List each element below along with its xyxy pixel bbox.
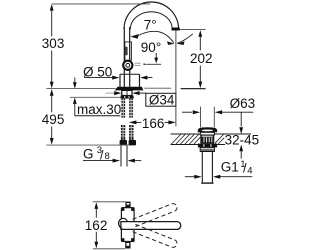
svg-text:7°: 7° — [144, 18, 157, 33]
32-45 arrow down — [239, 127, 243, 134]
riser tube right wall — [129, 27, 131, 87]
dimension 202 line lower — [199, 66, 201, 83]
mounting shank — [122, 90, 132, 95]
D50 dim line left — [84, 77, 113, 79]
D50 arrow right-pointing — [112, 76, 119, 80]
locknut facet marks — [203, 144, 204, 147]
top view body corner tabs — [122, 208, 125, 211]
deck bottom line (drain) — [171, 144, 226, 146]
handle pivot ring — [123, 61, 132, 70]
stud right thread marks — [129, 101, 133, 116]
D63 arrow right-pointing — [193, 110, 200, 114]
hose-end extension line — [46, 144, 129, 146]
G1 1/4 arrow left-pointing — [213, 175, 220, 179]
svg-text:166: 166 — [142, 116, 165, 131]
162 top extension line — [93, 201, 126, 203]
swivel dashed tube upper — [133, 204, 177, 227]
svg-text:G: G — [83, 147, 94, 162]
svg-text:90°: 90° — [141, 40, 161, 55]
162 bottom extension line — [93, 248, 125, 250]
threaded stud left — [121, 99, 125, 118]
max.30 underline — [75, 115, 121, 117]
lever handle dark grip — [125, 47, 128, 55]
D63 dim line left — [182, 111, 192, 113]
dimension 495 line lower — [51, 127, 53, 140]
spout inner arc — [130, 12, 172, 30]
90deg down arrow shaft — [155, 53, 157, 60]
svg-text:G1: G1 — [221, 160, 239, 175]
max.30 upper arrow shaft — [74, 78, 76, 84]
lever handle outline — [125, 42, 131, 60]
mounting nut — [121, 96, 134, 99]
D63 extension line right — [213, 107, 215, 128]
top view swivel hub — [119, 218, 128, 228]
162 arrow down — [94, 242, 98, 249]
swivel dashed tube lower — [133, 224, 177, 247]
D34 arrow right (points left at shank) — [132, 91, 139, 95]
D63 dim line right — [222, 111, 254, 113]
drain collar — [200, 147, 214, 151]
G3/8 arrow left-pointing — [128, 159, 135, 163]
svg-text:32-45: 32-45 — [225, 133, 260, 148]
dimension 303 line upper — [51, 9, 53, 37]
162 dim line lower — [95, 232, 97, 243]
cap highlight — [202, 130, 214, 132]
deck bottom line — [70, 96, 121, 98]
body cylinder left wall — [119, 74, 121, 87]
drop tube below left connector — [120, 145, 122, 166]
dimension 303 arrow up — [50, 4, 54, 11]
drain locknut — [198, 144, 217, 148]
handle pivot inner hole — [126, 63, 130, 67]
dimension 166 line left — [136, 121, 141, 123]
32-45 arrow up — [239, 145, 243, 152]
162 arrow up — [94, 202, 98, 209]
base flange — [115, 87, 144, 91]
top view spout tube — [121, 222, 181, 230]
dimension 303 line lower — [51, 51, 53, 84]
deck top line (drain) — [171, 133, 252, 135]
svg-text:Ø63: Ø63 — [230, 96, 256, 111]
D34 box — [146, 93, 176, 106]
90deg leader arrowhead at tube — [130, 34, 138, 39]
nut facet marks — [123, 96, 126, 98]
dimension 166 arrow right — [168, 120, 175, 124]
svg-text:Ø 50: Ø 50 — [83, 64, 112, 79]
D50 arrow left-pointing — [140, 76, 147, 80]
hose connector left — [120, 140, 127, 145]
drain body top sliver — [202, 136, 213, 137]
svg-text:4: 4 — [247, 165, 252, 176]
dimension 166 arrow left — [129, 120, 137, 124]
handle centre line tick — [144, 63, 148, 65]
D34 arrow left (points right at shank) — [114, 91, 121, 95]
D34 leader to box — [139, 92, 146, 94]
hose connector right — [129, 140, 136, 145]
G1 1/4 arrow right-pointing — [194, 175, 201, 179]
D34 grey tail line — [106, 92, 115, 94]
cap skirt — [200, 132, 214, 135]
drain pipe — [201, 152, 203, 183]
deck hatching — [171, 134, 224, 145]
drain flange cap — [198, 127, 217, 132]
body cylinder top edge — [120, 73, 140, 75]
162 dim line upper — [95, 208, 97, 218]
max.30 upper arrow — [73, 82, 77, 88]
dimension 303 arrow down — [50, 82, 54, 89]
handle centre dashes — [135, 62, 141, 64]
long vertical reference line from spout — [175, 31, 177, 127]
drain body in deck — [200, 135, 214, 144]
dimension 495 arrow up — [50, 89, 54, 96]
D50 dim line right — [147, 77, 153, 79]
svg-text:162: 162 — [85, 218, 108, 233]
7deg arc arrowhead — [177, 41, 185, 45]
G1 1/4 dim line left — [185, 176, 195, 178]
stud left thread marks — [121, 101, 125, 116]
top view lever block top — [125, 202, 130, 208]
svg-text:Ø34: Ø34 — [149, 92, 175, 107]
spout outer arc — [124, 2, 179, 29]
dimension 202 arrow down — [198, 82, 202, 89]
max.30 lower arrow — [73, 98, 77, 104]
spout outlet extension line — [180, 29, 206, 31]
7deg tilt arc right of centre line — [177, 34, 193, 44]
dimension 202 arrow up — [198, 30, 202, 37]
dimension 495 line upper — [51, 95, 53, 112]
shank centre line — [126, 90, 128, 95]
svg-text:303: 303 — [42, 36, 65, 51]
riser tube left wall — [123, 27, 125, 87]
90deg leader curve — [138, 31, 174, 42]
supply tailpiece left (threaded) — [121, 125, 125, 140]
rim reference line — [46, 88, 115, 90]
aerator at spout end — [172, 28, 180, 31]
body cylinder right wall — [139, 74, 141, 87]
32-45 dim line lower — [240, 151, 242, 159]
32-45 dim line upper — [240, 112, 242, 126]
G1 1/4 dim line right — [220, 176, 253, 178]
svg-text:495: 495 — [42, 112, 65, 127]
drain pipe bottom edge — [201, 182, 213, 184]
90deg down arrowhead — [154, 58, 158, 64]
dimension 202 line upper — [199, 36, 201, 51]
threaded stud right — [129, 99, 133, 118]
swivel hub left arc over tube — [119, 219, 123, 229]
D63 extension line left — [200, 107, 202, 128]
svg-text:max.30: max.30 — [77, 102, 121, 117]
svg-text:202: 202 — [190, 51, 213, 66]
dimension 495 arrow down — [50, 138, 54, 145]
D63 arrow left-pointing — [215, 110, 222, 114]
max.30 lower shaft — [74, 103, 76, 116]
drain body thread marks — [204, 137, 212, 142]
dimension 166 line right — [165, 121, 170, 123]
top extension line — [52, 3, 150, 5]
rim tick under 202 — [181, 88, 206, 90]
supply tailpiece right (threaded) — [129, 125, 133, 140]
top view lever block bottom — [125, 242, 130, 249]
90deg leader end arrowhead — [167, 41, 175, 45]
top view body — [121, 208, 134, 242]
G3/8 underline with arrow — [83, 160, 114, 162]
